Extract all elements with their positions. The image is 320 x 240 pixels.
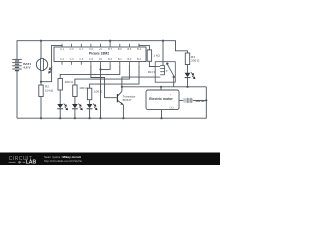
svg-text:C.2: C.2	[60, 57, 65, 61]
wire transistor emitter to rail	[122, 105, 124, 118]
LED D2	[72, 104, 83, 111]
svg-text:C.1: C.1	[60, 47, 65, 51]
LED D1	[57, 104, 68, 111]
svg-text:C.6: C.6	[89, 47, 94, 51]
svg-text:B.4: B.4	[137, 47, 141, 51]
wire motor top	[160, 87, 162, 90]
svg-text:LAB: LAB	[26, 160, 37, 165]
wire pin B.0 to ground column	[101, 65, 111, 70]
svg-text:100 Ω: 100 Ω	[65, 80, 74, 84]
svg-text:Picaxe 18M2: Picaxe 18M2	[89, 52, 109, 56]
wire motor to capacitor	[179, 99, 188, 101]
capacitor C1 100uF	[183, 98, 193, 103]
wire 1k resistor to relay coil	[149, 61, 155, 66]
wire chain2 LED to rail	[74, 109, 76, 118]
wire LDR column	[40, 41, 42, 85]
svg-text:C.3: C.3	[70, 57, 75, 61]
svg-text:100 Ω: 100 Ω	[94, 90, 103, 94]
svg-text:http://circuitlab.com/c/7ak7ar: http://circuitlab.com/c/7ak7ar	[44, 159, 82, 163]
resistor chain2 100 ohm	[73, 85, 77, 97]
svg-text:330 Ω: 330 Ω	[191, 58, 200, 62]
wire top rail	[17, 41, 188, 60]
footer bar	[0, 153, 220, 166]
resistor chain1 100 ohm	[58, 79, 62, 91]
wire rail to relay switch	[162, 41, 164, 62]
svg-text:B.7: B.7	[108, 47, 112, 51]
IC pins	[62, 44, 139, 65]
svg-text:100 uF: 100 uF	[195, 99, 205, 103]
svg-text:+V: +V	[99, 47, 103, 51]
IC pin labels top	[60, 47, 142, 51]
svg-text:Out: Out	[169, 105, 174, 109]
motor M1 electric motor	[146, 90, 179, 110]
svg-text:BC547: BC547	[123, 98, 132, 102]
wire battery to bottom rail	[16, 71, 18, 119]
wire relay coil bottom to transistor collector	[122, 77, 155, 91]
wire +V pin to rail	[109, 41, 111, 44]
svg-text:C.5: C.5	[89, 57, 94, 61]
wire pin C.5 to transistor base	[91, 65, 117, 98]
logo CircuitLab	[9, 156, 37, 166]
resistor R2 10k	[39, 85, 43, 97]
wire chain1 R to LED	[59, 90, 61, 104]
svg-text:B.5: B.5	[127, 47, 131, 51]
wire LED D4 cathode down	[187, 78, 189, 87]
svg-text:4.8 V: 4.8 V	[23, 66, 31, 70]
wire R2 to bottom rail	[40, 97, 42, 119]
junction dots	[40, 40, 208, 120]
svg-text:0V: 0V	[99, 57, 102, 61]
svg-text:B.3: B.3	[137, 57, 141, 61]
wire pin B.5 to 1k resistor	[139, 44, 149, 50]
svg-text:B.1: B.1	[118, 57, 122, 61]
svg-text:Sean nystra / Mikey circuit: Sean nystra / Mikey circuit	[44, 155, 81, 159]
resistor chain3 100 ohm	[87, 88, 91, 100]
transistor Q1 BC547	[117, 92, 123, 105]
labels	[23, 47, 205, 109]
svg-text:RLY1: RLY1	[148, 70, 156, 74]
wire motor top node	[122, 86, 206, 88]
wire motor bottom to rail	[161, 110, 163, 119]
svg-text:C.7: C.7	[79, 47, 84, 51]
relay RLY1	[155, 62, 175, 82]
svg-text:C.0: C.0	[70, 47, 75, 51]
wire capacitor to right rail	[192, 99, 206, 101]
wire chain3 LED to rail	[89, 109, 91, 118]
svg-text:B.6: B.6	[118, 47, 122, 51]
battery BAT1	[12, 59, 22, 70]
svg-text:100 Ω: 100 Ω	[79, 86, 88, 90]
resistor R 1k	[147, 50, 151, 61]
svg-text:1 kΩ: 1 kΩ	[153, 54, 160, 58]
wire pin B.2 to LED chain 2	[75, 65, 129, 85]
wire LDR branch to pin C.1	[41, 45, 62, 81]
wire relay switch to motor node	[173, 82, 175, 87]
svg-text:Electric motor: Electric motor	[149, 97, 173, 101]
wire chain1 LED to rail	[59, 109, 61, 118]
IC U1 Picaxe 18M2	[54, 47, 146, 62]
svg-text:10 kΩ: 10 kΩ	[45, 88, 54, 92]
wire pin B.3 to LED chain 3	[90, 65, 139, 89]
wire chain3 R to LED	[89, 100, 91, 104]
wire chain2 R to LED	[74, 97, 76, 105]
LED D3	[87, 104, 98, 111]
wire bottom rail	[17, 87, 206, 118]
LED D4 right	[185, 72, 196, 79]
wire 0V pin to bottom rail	[100, 65, 102, 119]
IC pin labels bottom	[60, 57, 142, 61]
wire LED D4 to node	[187, 65, 189, 73]
wire pin B.1 to LED chain 1	[60, 65, 120, 79]
svg-text:C.4: C.4	[79, 57, 84, 61]
svg-text:B.0: B.0	[108, 57, 112, 61]
resistor R3 330	[185, 53, 189, 65]
svg-text:B.2: B.2	[127, 57, 131, 61]
photoresistor LDR	[36, 58, 52, 73]
